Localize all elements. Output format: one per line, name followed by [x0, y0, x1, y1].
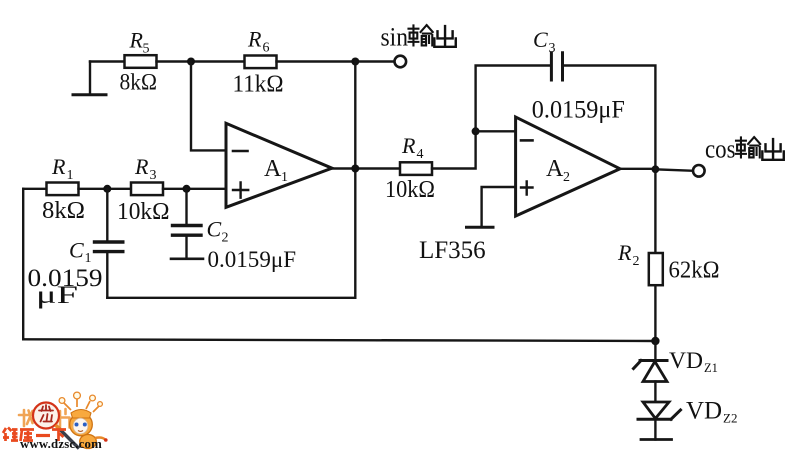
hanzi 出 (sin label) [434, 26, 455, 47]
resistor R2 [617, 240, 720, 285]
hanzi 出 (cos label) [762, 139, 783, 160]
svg-text:www.dzsc.com: www.dzsc.com [20, 437, 102, 450]
svg-text:3: 3 [549, 41, 556, 56]
wire VDZ1 to VDZ2 [654, 382, 656, 403]
wire rail to R1 [23, 188, 46, 190]
svg-text:VD: VD [686, 398, 722, 425]
watermark: 找芯片 magnifier logo [19, 403, 70, 429]
terminal: sin output [395, 56, 407, 68]
svg-text:0.0159μF: 0.0159μF [532, 97, 625, 124]
hanzi 输 (cos label) [736, 137, 760, 157]
svg-text:Z2: Z2 [723, 411, 737, 426]
wire node B down to A1 output node [354, 62, 356, 169]
resistor R3 [117, 154, 170, 225]
svg-text:62kΩ: 62kΩ [669, 258, 720, 284]
node D (R3/C2/A1+ junction) [183, 185, 191, 193]
wire ground to R5 [90, 60, 125, 62]
left rail (R1 left to bottom rail) [22, 189, 24, 339]
svg-text:R: R [51, 154, 66, 179]
watermark: 维库一下 red text [3, 428, 66, 442]
resistor R5 [120, 28, 158, 95]
svg-text:2: 2 [222, 231, 229, 246]
zener diode VDZ2 [638, 398, 737, 426]
svg-text:cos: cos [705, 135, 736, 164]
svg-text:VD: VD [669, 348, 703, 374]
op-amp A1 [226, 123, 332, 207]
capacitor C1 [28, 189, 123, 309]
wire R2 to node G [654, 285, 656, 341]
wire R3 to node D and A1 + input [163, 188, 226, 190]
wire A1 apex to node and R4 [332, 167, 400, 169]
label sin output [381, 23, 409, 52]
svg-text:1: 1 [85, 251, 92, 266]
ground (A2 non-inverting) [467, 226, 494, 229]
svg-text:A: A [546, 156, 564, 182]
svg-text:8kΩ: 8kΩ [120, 70, 158, 95]
node A (R5/R6/A1- junction) [187, 58, 195, 66]
watermark: mascot [56, 392, 108, 448]
svg-text:1: 1 [67, 168, 74, 183]
wire node A down to A1 inverting input [191, 62, 226, 151]
resistor R6 [233, 27, 284, 98]
svg-text:3: 3 [150, 168, 157, 183]
wire A1 output vertical to inner bottom [354, 169, 356, 298]
node F (A2 output) [652, 165, 660, 173]
svg-text:R: R [401, 133, 416, 158]
zener diode VDZ1 [634, 341, 718, 382]
svg-text:μF: μF [36, 282, 78, 309]
svg-text:10kΩ: 10kΩ [385, 177, 435, 203]
hanzi 输 (sin label) [409, 25, 433, 45]
svg-text:A: A [264, 156, 282, 182]
wire A2 apex to node F [620, 168, 655, 170]
inner feedback bottom wire (C1 to A1 output) [107, 297, 355, 299]
ground (top-left, at R5 input) [73, 62, 106, 95]
svg-text:R: R [247, 27, 262, 52]
node G (rail / zener junction) [651, 337, 659, 345]
terminal: cos output [693, 165, 705, 177]
node B (R6 out / feedback) [351, 58, 359, 66]
svg-text:1: 1 [281, 170, 288, 185]
wire R5 to node A [157, 60, 245, 62]
svg-text:11kΩ: 11kΩ [233, 72, 284, 98]
wire A2 plus input to ground [482, 187, 516, 226]
svg-text:4: 4 [417, 147, 424, 162]
resistor R4 [385, 133, 435, 203]
node E (A2- / C3 junction) [472, 127, 480, 135]
wire R4 to node E (A2 inverting) [432, 131, 476, 168]
svg-text:0.0159μF: 0.0159μF [208, 247, 297, 272]
svg-text:R: R [617, 240, 632, 265]
bottom rail [23, 339, 655, 341]
svg-text:sin: sin [381, 23, 409, 52]
bottom terminal of VDZ2 [641, 419, 672, 439]
capacitor C3 feedback loop [476, 27, 656, 169]
svg-text:8kΩ: 8kΩ [42, 198, 85, 224]
svg-text:R: R [134, 154, 149, 179]
wire R1 to node C [79, 188, 132, 190]
node A1 output [351, 165, 359, 173]
svg-text:6: 6 [263, 41, 270, 56]
wire R6 to node B [277, 60, 356, 62]
resistor R1 [42, 154, 85, 224]
svg-text:R: R [129, 28, 144, 53]
svg-text:Z1: Z1 [704, 361, 718, 375]
svg-text:C: C [69, 238, 84, 263]
wire node B to sin terminal [355, 60, 394, 62]
svg-text:C: C [207, 217, 222, 242]
capacitor C2 [173, 189, 297, 272]
svg-text:2: 2 [563, 170, 570, 185]
ground (C2 bottom) [171, 257, 203, 260]
svg-text:10kΩ: 10kΩ [117, 199, 170, 225]
op-amp A2 [516, 117, 620, 216]
svg-text:2: 2 [633, 254, 640, 269]
wire node F down to R2 [654, 169, 656, 253]
svg-text:LF356: LF356 [419, 237, 486, 264]
wire node F to cos terminal [655, 169, 693, 171]
svg-text:5: 5 [143, 42, 150, 57]
node C (R1/R3/C1 junction) [103, 185, 111, 193]
svg-text:C: C [533, 27, 548, 52]
wire node E to A2 minus input [476, 130, 516, 132]
